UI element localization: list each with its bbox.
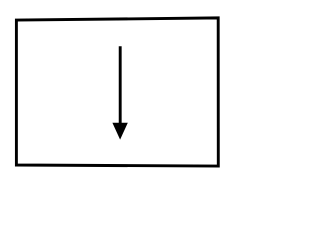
- arrow shaft: [119, 46, 122, 124]
- arrowhead: [112, 123, 127, 140]
- rectangle frame: [16, 18, 218, 166]
